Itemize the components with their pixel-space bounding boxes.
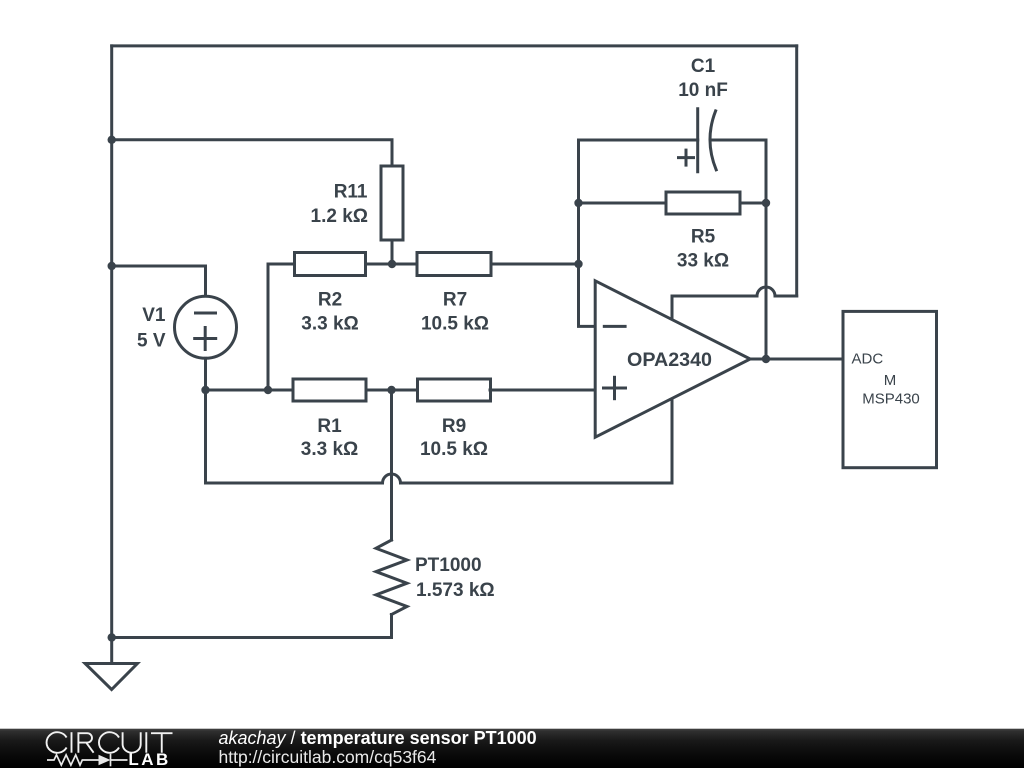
svg-text:R2: R2 <box>318 290 342 311</box>
resistor PT1000 <box>376 540 407 615</box>
wire V1 top lead <box>112 266 206 296</box>
svg-text:LAB: LAB <box>128 750 170 768</box>
node ground junction <box>108 633 116 641</box>
svg-text:33 kΩ: 33 kΩ <box>677 251 729 272</box>
svg-text:10 nF: 10 nF <box>678 80 728 101</box>
node R1 left junction <box>264 386 272 394</box>
wire op-amp output <box>750 358 843 361</box>
svg-text:R9: R9 <box>442 416 466 437</box>
svg-text:V1: V1 <box>142 305 166 326</box>
node R7-inverting input junction <box>574 260 582 268</box>
wire sensor top lead <box>390 390 393 540</box>
node left rail / V1 top junction <box>108 262 116 270</box>
feedback loop left vertical <box>579 140 596 326</box>
wire supply to op-amp top with hop <box>672 287 797 320</box>
wire R5 left lead <box>579 202 667 205</box>
resistor R9 <box>418 379 491 401</box>
svg-text:PT1000: PT1000 <box>415 555 482 576</box>
voltage source V1 <box>175 296 237 358</box>
resistor R1 <box>293 379 366 401</box>
op-amp U1 OPA2340 <box>595 281 750 437</box>
svg-text:R11: R11 <box>334 182 368 203</box>
wire ground run under V1 <box>204 390 207 483</box>
IC M MSP430 box <box>843 311 937 467</box>
wire R7 to inverting node <box>491 263 579 266</box>
svg-text:akachay / temperature sensor P: akachay / temperature sensor PT1000 <box>219 728 537 748</box>
node R2-R7-R11 junction <box>388 260 396 268</box>
svg-text:R5: R5 <box>691 227 716 248</box>
wire bottom row left <box>206 389 294 392</box>
svg-text:MSP430: MSP430 <box>862 390 920 407</box>
node R1-R9-PT1000 junction <box>387 386 395 394</box>
node R5 right junction <box>762 199 770 207</box>
svg-text:R1: R1 <box>317 416 342 437</box>
wire ground row with hop <box>206 474 673 483</box>
wire R9 to non-inverting input <box>490 389 595 392</box>
wire right rail down <box>795 46 798 296</box>
node V1 bottom junction <box>201 386 209 394</box>
capacitor C1 <box>696 109 699 172</box>
feedback top wire left <box>579 139 698 142</box>
wire top rail <box>112 44 797 47</box>
svg-text:5 V: 5 V <box>137 331 166 352</box>
wire R5 right lead <box>740 202 766 205</box>
svg-text:C1: C1 <box>691 56 716 77</box>
wire R11 feed <box>112 140 392 166</box>
wire R11 bottom lead <box>391 240 394 264</box>
svg-text:3.3 kΩ: 3.3 kΩ <box>301 314 359 335</box>
logo resistor-diode doodle <box>47 754 128 767</box>
node op-amp output junction <box>762 355 770 363</box>
wire left vertical rail <box>110 46 113 664</box>
svg-text:10.5 kΩ: 10.5 kΩ <box>421 314 489 335</box>
feedback top wire right <box>712 139 767 142</box>
svg-text:ADC: ADC <box>852 351 884 368</box>
feedback right vertical <box>765 140 768 359</box>
wire sensor bottom lead <box>112 615 392 638</box>
resistor R2 <box>295 253 366 276</box>
svg-text:M: M <box>884 372 897 389</box>
resistor R7 <box>417 253 491 276</box>
svg-text:R7: R7 <box>443 290 467 311</box>
svg-text:http://circuitlab.com/cq53f64: http://circuitlab.com/cq53f64 <box>219 747 437 767</box>
CircuitLab logo CIRCUIT <box>47 732 173 753</box>
node left rail / R11 feed junction <box>108 136 116 144</box>
wire V1 bottom lead <box>204 358 207 390</box>
resistor R5 <box>666 192 740 214</box>
wire R1-R9 <box>366 389 418 392</box>
svg-text:3.3 kΩ: 3.3 kΩ <box>301 439 359 460</box>
resistor R11 <box>381 166 403 240</box>
wire op-amp negative supply <box>671 399 674 484</box>
svg-text:10.5 kΩ: 10.5 kΩ <box>420 439 488 460</box>
wire R2-R7 <box>366 263 418 266</box>
ground <box>85 664 137 690</box>
wire R2 left lead <box>268 264 295 390</box>
node R5 left junction <box>574 199 582 207</box>
svg-text:1.573 kΩ: 1.573 kΩ <box>416 580 495 601</box>
svg-text:OPA2340: OPA2340 <box>627 350 712 371</box>
svg-text:1.2 kΩ: 1.2 kΩ <box>311 206 369 227</box>
